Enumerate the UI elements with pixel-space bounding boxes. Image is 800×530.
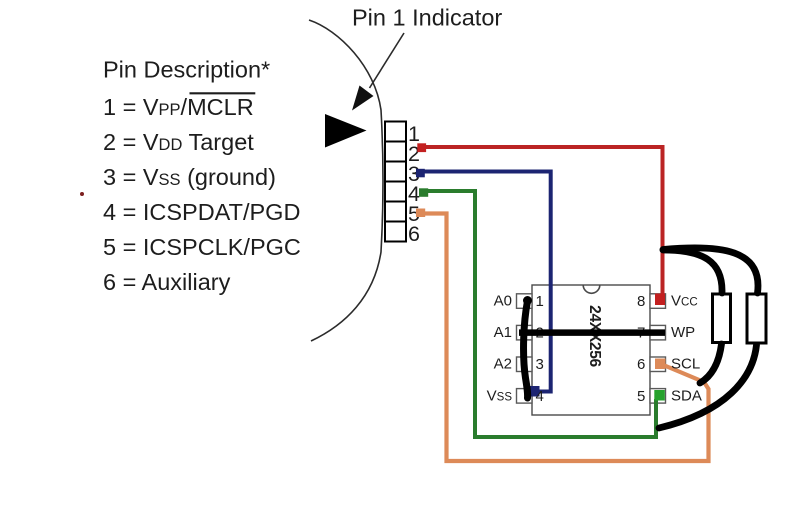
svg-text:Pin 1 Indicator: Pin 1 Indicator (352, 5, 502, 31)
svg-text:4 = ICSPDAT/PGD: 4 = ICSPDAT/PGD (103, 199, 300, 225)
svg-text:Pin Description*: Pin Description* (103, 57, 270, 83)
svg-text:SCL: SCL (671, 356, 700, 373)
svg-text:A0: A0 (494, 293, 512, 310)
svg-text:5 = ICSPCLK/PGC: 5 = ICSPCLK/PGC (103, 234, 301, 260)
svg-text:6 = Auxiliary: 6 = Auxiliary (103, 269, 231, 295)
svg-text:5: 5 (637, 388, 645, 405)
svg-text:A2: A2 (494, 356, 512, 373)
svg-text:WP: WP (671, 324, 695, 341)
svg-text:24XX256: 24XX256 (586, 305, 603, 367)
svg-text:4: 4 (536, 388, 544, 405)
svg-text:1: 1 (536, 293, 544, 310)
svg-text:8: 8 (637, 293, 645, 310)
svg-text:SDA: SDA (671, 387, 702, 404)
svg-text:3: 3 (536, 356, 544, 373)
svg-text:6: 6 (408, 222, 420, 246)
svg-text:3 = VSS (ground): 3 = VSS (ground) (103, 164, 276, 190)
svg-text:6: 6 (637, 356, 645, 373)
svg-text:A1: A1 (494, 324, 512, 341)
